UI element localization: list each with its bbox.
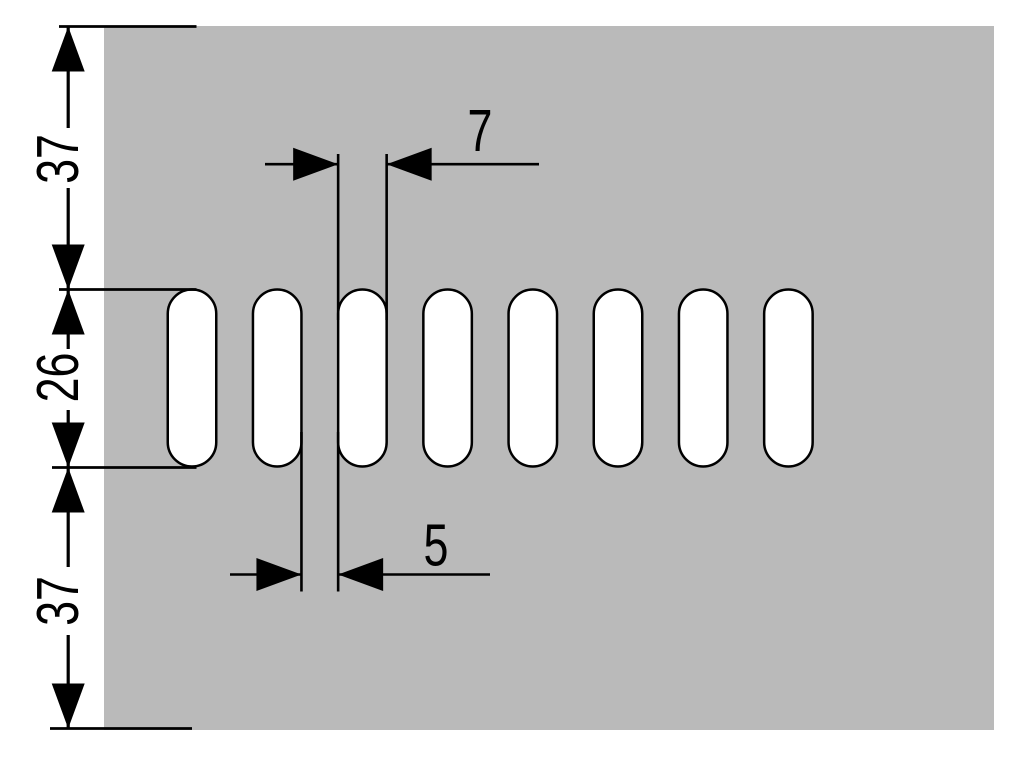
dim 7: left tail line [265,163,338,166]
dim 7: arrow pointing right tip x=338.15 [293,148,338,181]
extension line slot bottom y=467.5 [52,466,197,469]
svg-text:5: 5 [424,514,449,579]
dim 5: extension line right x=338.15 [337,432,340,592]
slot 4 [423,290,472,467]
slot 8 [764,290,813,467]
slot 2 [253,290,302,467]
arrow down tip y=467.5 [52,423,85,468]
arrow down tip y=289.5 [52,245,85,290]
svg-text:26: 26 [26,353,91,403]
extension line bottom edge y=728.5 [50,727,192,730]
arrow up tip y=289.5 [52,290,85,335]
arrow up tip y=26.5 [52,27,85,72]
svg-text:37: 37 [26,134,91,184]
dim 7: arrow pointing left tip x=386.65 [387,148,432,181]
extension line top edge y=26.5 [59,25,197,28]
dim line 37 bottom [67,468,70,568]
extension line slot top y=289.5 [59,288,197,291]
slot 6 [594,290,643,467]
svg-text:7: 7 [467,99,492,164]
svg-text:37: 37 [26,576,91,626]
dim 5: left tail line [230,573,301,576]
dim 7: right tail line [387,163,539,166]
plate [104,26,994,730]
slot 5 [509,290,558,467]
dim line 26 [67,290,70,350]
dim 5: arrow pointing right tip x=301.45 [256,558,301,591]
dim 7: extension line left x=338.15 [337,154,340,320]
slot 3 [338,290,387,467]
dim 5: extension line left x=301.45 [300,432,303,592]
slot 1 [168,290,217,467]
dim line 37 top [67,27,70,129]
dim 5: arrow pointing left tip x=338.15 [338,558,383,591]
arrow down tip y=728.5 [52,684,85,729]
arrow up tip y=467.5 [52,468,85,513]
dim 7: extension line right x=386.65 [385,154,388,320]
slot 7 [679,290,728,467]
dim 5: right tail line [338,573,490,576]
